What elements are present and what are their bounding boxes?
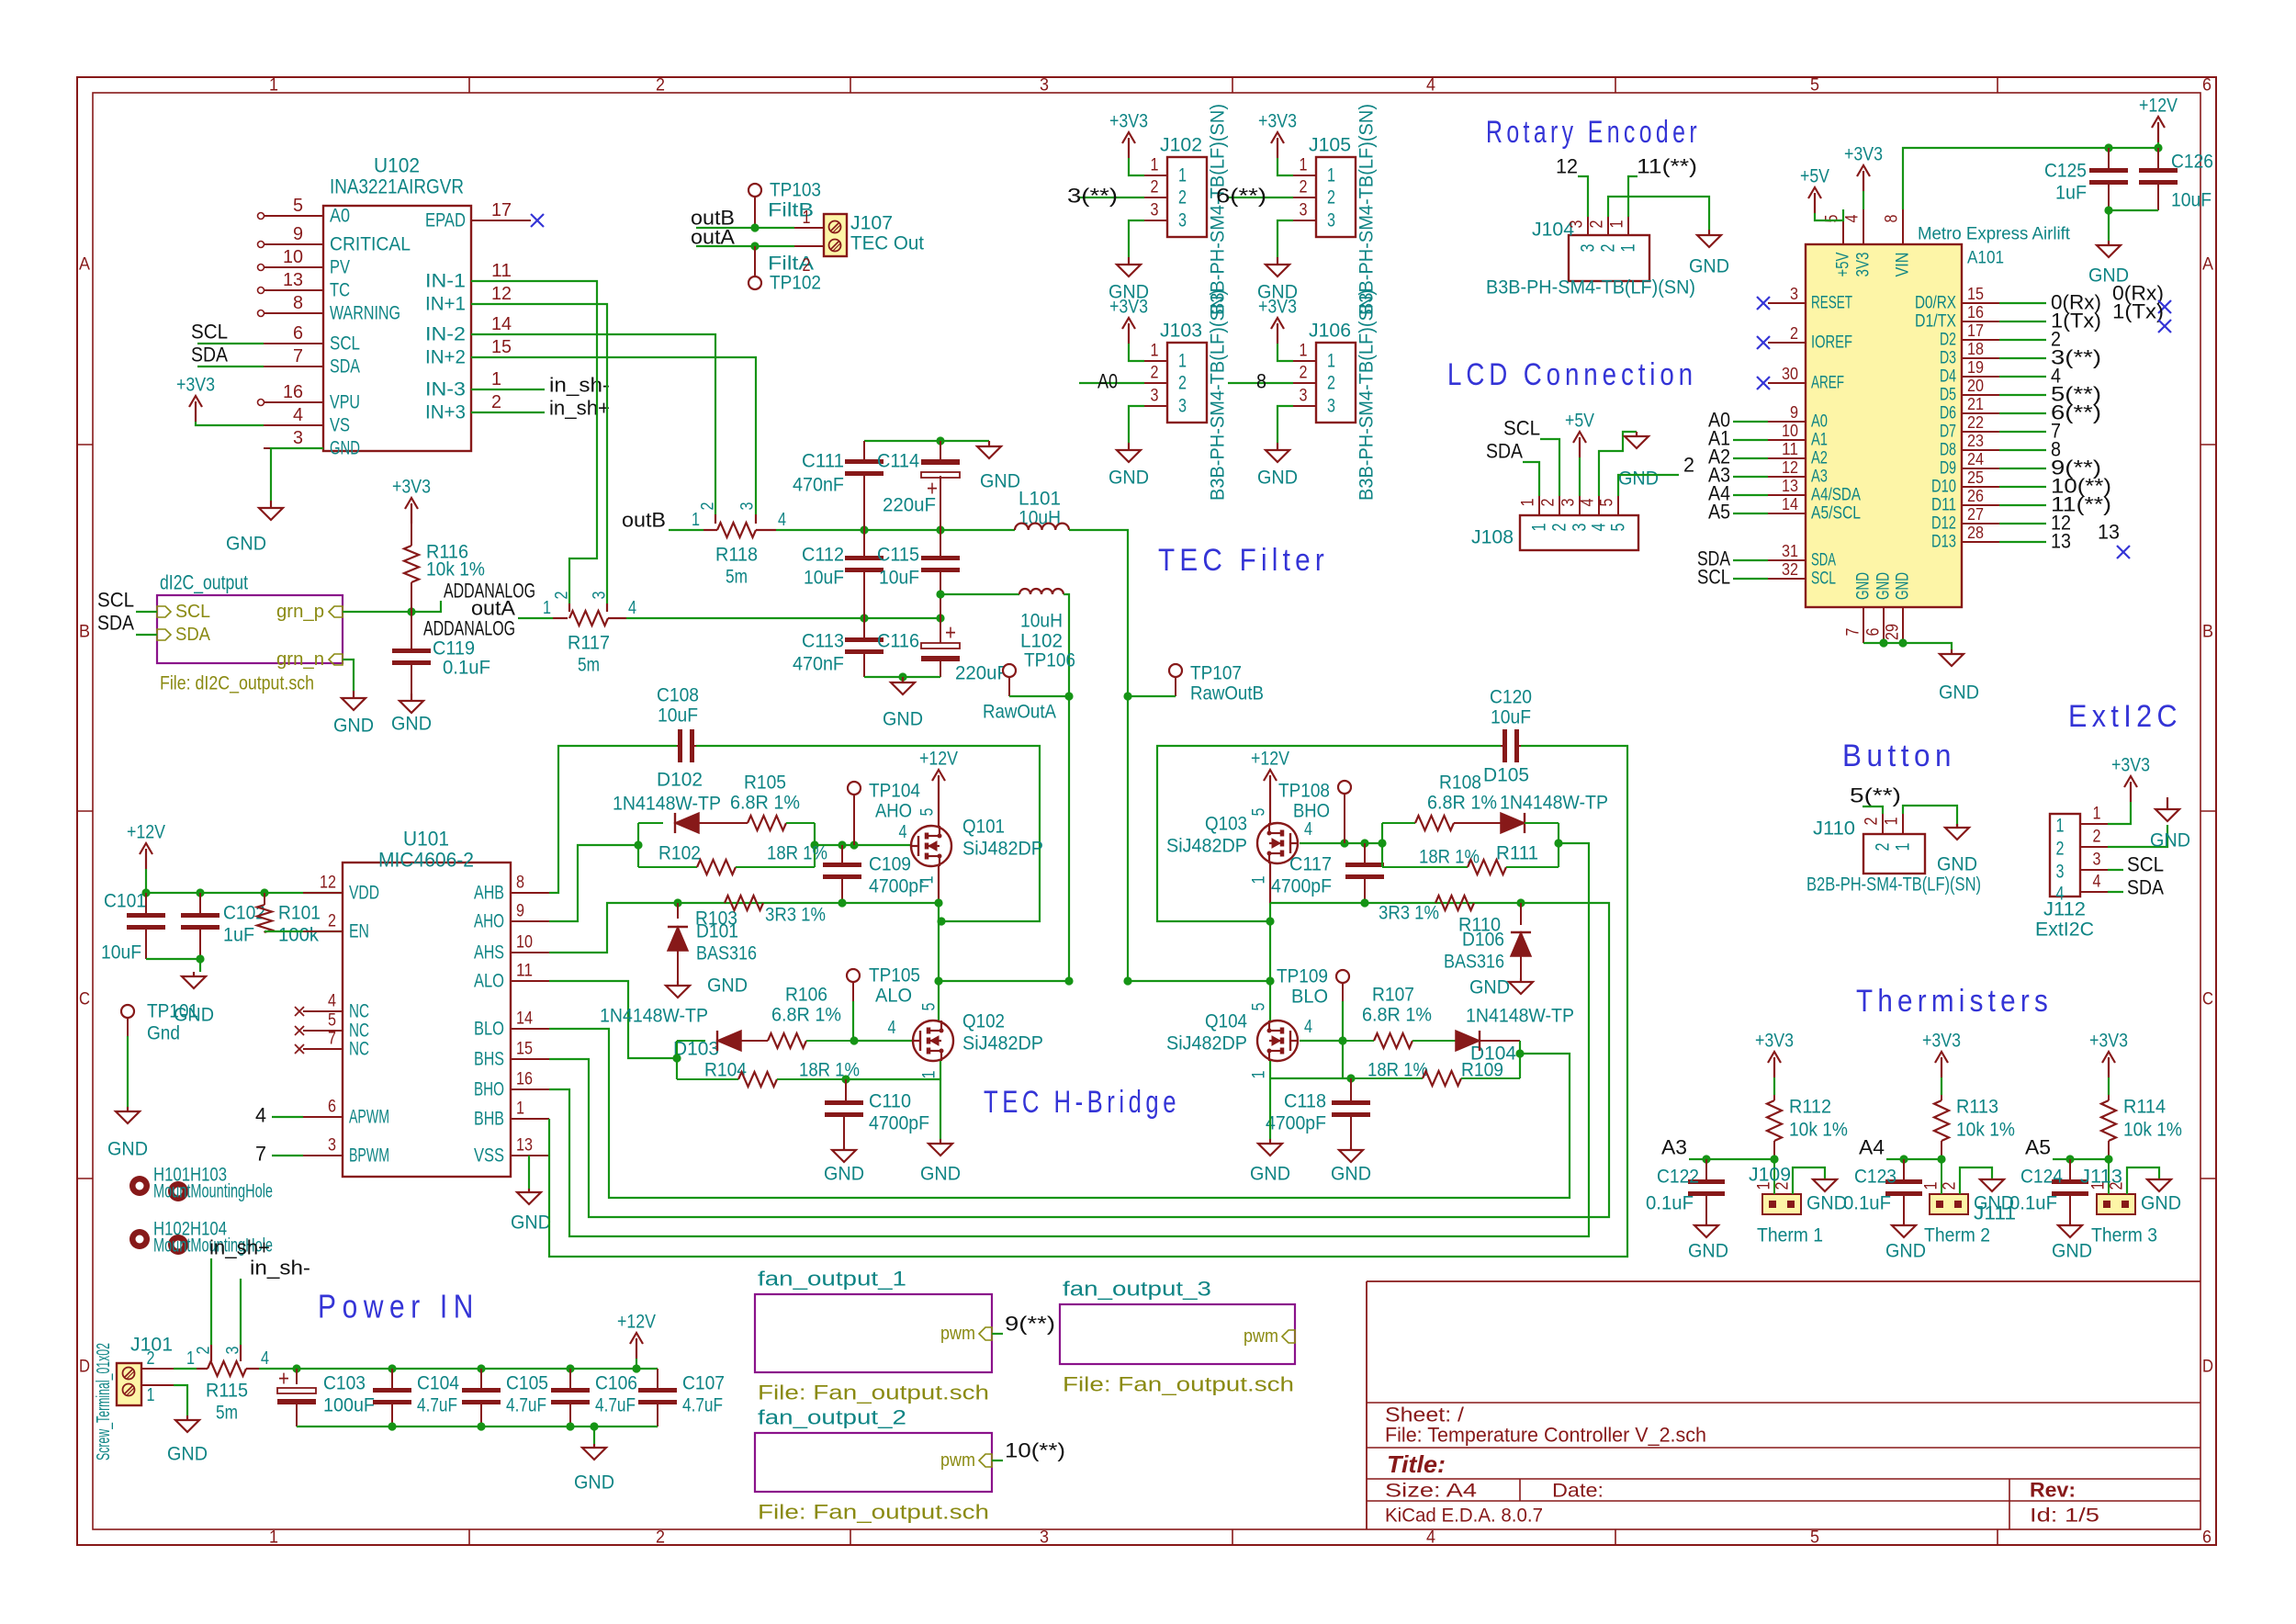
resistor R111 18R	[1382, 843, 1559, 875]
svg-text:grn_p: grn_p	[276, 602, 324, 622]
wire/label 8 (A101 D8)	[1999, 438, 2061, 461]
svg-text:R106: R106	[785, 985, 827, 1006]
ground GND (C118)	[1331, 1147, 1371, 1185]
svg-text:GND: GND	[1937, 854, 1977, 875]
svg-text:8: 8	[1883, 215, 1902, 223]
svg-text:RawOutA: RawOutA	[983, 702, 1056, 723]
svg-text:R102: R102	[658, 843, 701, 864]
wire AHS rail (C109/R103/D101)	[673, 898, 942, 907]
svg-text:21: 21	[1967, 395, 1984, 413]
svg-text:4: 4	[778, 510, 786, 530]
svg-text:GND: GND	[1974, 1193, 2014, 1214]
svg-text:16: 16	[1967, 303, 1984, 321]
svg-text:24: 24	[1967, 450, 1984, 468]
svg-text:1(Tx): 1(Tx)	[2112, 300, 2164, 323]
power +12V (Q101)	[918, 749, 959, 827]
ground GND (power rail)	[574, 1427, 614, 1494]
svg-text:R115: R115	[206, 1381, 248, 1402]
label 1(Tx) floating with no-connect	[2112, 300, 2171, 333]
svg-text:GND: GND	[920, 1164, 961, 1185]
svg-text:11: 11	[491, 261, 512, 281]
svg-text:1N4148W-TP: 1N4148W-TP	[1466, 1006, 1574, 1027]
svg-text:5: 5	[293, 196, 303, 216]
svg-text:LCD Connection: LCD Connection	[1447, 357, 1697, 392]
svg-text:ALO: ALO	[875, 986, 912, 1007]
resistor R117 5m shunt	[518, 592, 636, 676]
wire power bottom rail	[297, 1422, 658, 1430]
svg-text:2: 2	[656, 1528, 665, 1548]
test point TP101 Gnd	[121, 1001, 198, 1108]
svg-text:4700pF: 4700pF	[1271, 876, 1332, 897]
svg-text:GND: GND	[1874, 572, 1894, 600]
svg-text:2: 2	[2093, 828, 2101, 847]
svg-text:10(**): 10(**)	[1005, 1439, 1065, 1462]
svg-text:3: 3	[738, 502, 758, 511]
diode D101 BAS316	[668, 903, 757, 981]
svg-text:+3V3: +3V3	[1109, 297, 1148, 318]
wire outA to J107 pin2	[696, 242, 794, 250]
capacitor C104 4.7uF	[373, 1369, 459, 1427]
capacitor C111 470nF	[793, 441, 884, 530]
svg-text:Q102: Q102	[962, 1011, 1005, 1032]
svg-text:D9: D9	[1940, 459, 1956, 479]
svg-text:15: 15	[491, 337, 512, 357]
connector J111	[1922, 1159, 2017, 1246]
label pin4 Q101	[899, 822, 907, 842]
capacitor C119 0.1uF	[392, 612, 490, 694]
svg-text:GND: GND	[1806, 1193, 1847, 1214]
label SCL (A101)	[1697, 566, 1768, 589]
power +5V (J108)	[1565, 411, 1594, 497]
svg-text:J106: J106	[1309, 321, 1351, 342]
svg-text:Rotary Encoder: Rotary Encoder	[1486, 115, 1701, 150]
wire IN+2 to R118 kelvin3	[471, 357, 756, 514]
svg-text:+12V: +12V	[919, 749, 958, 770]
svg-text:6.8R 1%: 6.8R 1%	[1362, 1005, 1432, 1026]
svg-text:1uF: 1uF	[223, 925, 254, 946]
resistor R115 5m shunt	[174, 1345, 269, 1424]
svg-text:IOREF: IOREF	[1811, 333, 1852, 353]
svg-text:A3: A3	[1661, 1136, 1687, 1159]
svg-text:28: 28	[1967, 524, 1984, 542]
svg-text:BPWM: BPWM	[349, 1145, 389, 1167]
svg-text:GND: GND	[1469, 977, 1510, 998]
mounting hole H101 H103	[129, 1165, 273, 1202]
svg-text:15: 15	[516, 1040, 533, 1059]
svg-text:J108: J108	[1471, 527, 1514, 548]
resistor R102 18R	[638, 843, 827, 875]
wire filter top rail to GND	[864, 436, 989, 445]
svg-text:3: 3	[2056, 862, 2065, 883]
svg-text:3: 3	[1178, 396, 1187, 417]
capacitor C120 10uF bootstrap	[1490, 687, 1532, 763]
svg-text:IN-3: IN-3	[425, 379, 466, 400]
wire L102 out to RawOutA column	[1064, 594, 1069, 696]
svg-text:TP108: TP108	[1278, 781, 1330, 802]
svg-text:C120: C120	[1490, 687, 1532, 708]
label 13 floating with no-connect	[2098, 521, 2130, 559]
svg-text:3: 3	[1559, 499, 1579, 507]
diode D105 1N4148W-TP	[1454, 765, 1608, 834]
hierarchical sheet fan_output_2	[755, 1406, 992, 1524]
test point TP107 RawOutB	[1123, 663, 1264, 705]
svg-text:Date:: Date:	[1552, 1481, 1604, 1502]
wire/label 9(**) (A101 D9)	[1999, 457, 2101, 479]
svg-text:1: 1	[147, 1385, 155, 1405]
svg-text:TP106: TP106	[1024, 650, 1075, 671]
svg-text:+3V3: +3V3	[1922, 1031, 1961, 1052]
svg-text:2: 2	[1598, 244, 1619, 253]
ground GND (filter top)	[977, 441, 1020, 492]
svg-text:+3V3: +3V3	[392, 477, 431, 498]
wire J113 pin2 to GND	[2127, 1167, 2159, 1194]
svg-text:3: 3	[1578, 244, 1599, 253]
no-connect AREF	[1757, 377, 1770, 389]
svg-text:4: 4	[293, 405, 303, 425]
svg-text:C118: C118	[1284, 1091, 1326, 1112]
svg-text:BAS316: BAS316	[1444, 952, 1504, 973]
svg-text:3: 3	[1300, 387, 1308, 406]
ground GND (J101)	[167, 1415, 208, 1465]
svg-text:CRITICAL: CRITICAL	[330, 234, 411, 255]
svg-text:3: 3	[1570, 524, 1591, 532]
svg-text:2: 2	[1178, 373, 1187, 394]
svg-text:Therm 2: Therm 2	[1924, 1225, 1990, 1246]
svg-text:2: 2	[1588, 220, 1607, 229]
svg-text:2: 2	[1151, 178, 1159, 197]
label A5 (A101)	[1708, 501, 1768, 524]
svg-text:1: 1	[2093, 805, 2101, 824]
svg-text:1: 1	[1608, 220, 1627, 229]
svg-text:2: 2	[2056, 839, 2065, 860]
svg-text:17: 17	[1967, 321, 1984, 340]
svg-text:10uF: 10uF	[879, 568, 919, 589]
wire BLO rail	[549, 1029, 1570, 1198]
svg-text:GND: GND	[1939, 682, 1979, 704]
section title TEC H-Bridge	[984, 1085, 1180, 1120]
svg-text:GND: GND	[226, 534, 266, 555]
svg-text:25: 25	[1967, 468, 1984, 487]
svg-text:C111: C111	[802, 451, 844, 472]
svg-text:100uF: 100uF	[323, 1395, 375, 1416]
svg-text:ALO: ALO	[474, 971, 504, 992]
svg-text:3: 3	[591, 592, 610, 600]
svg-text:+3V3: +3V3	[2111, 755, 2150, 776]
gate loop Q101 right vertical	[810, 823, 818, 867]
svg-text:220uF: 220uF	[883, 495, 936, 516]
svg-text:1: 1	[1618, 244, 1639, 253]
svg-text:IN+3: IN+3	[425, 402, 466, 423]
svg-text:+3V3: +3V3	[1844, 144, 1883, 165]
resistor R118 5m shunt	[669, 502, 786, 588]
wire outB to J107 pin1	[696, 223, 794, 231]
svg-text:A2: A2	[1811, 449, 1828, 468]
svg-text:1: 1	[1519, 499, 1538, 507]
svg-text:9: 9	[516, 902, 524, 921]
resistor R105 6.8R	[730, 773, 815, 831]
ground GND (J113)	[2141, 1179, 2181, 1214]
wire AHB-C108 to AHS riser	[696, 746, 1040, 926]
svg-text:fan_output_3: fan_output_3	[1063, 1278, 1211, 1301]
wire grn_n to GND	[343, 660, 354, 691]
svg-text:1: 1	[1327, 165, 1335, 186]
svg-text:8: 8	[293, 293, 303, 313]
svg-text:220uF: 220uF	[955, 663, 1008, 684]
svg-text:A0: A0	[1097, 370, 1118, 393]
resistor R112 10k	[1767, 1095, 1848, 1159]
connector J105 B3B-PH-SM4-TB	[1293, 104, 1378, 315]
label ADDANALOG upper	[444, 580, 535, 603]
power +3V3 (J112)	[2108, 755, 2150, 825]
svg-text:R105: R105	[744, 773, 786, 794]
svg-text:IN+2: IN+2	[425, 347, 466, 368]
svg-text:D1/TX: D1/TX	[1915, 312, 1956, 332]
svg-text:2: 2	[328, 912, 336, 931]
test point TP102	[748, 246, 821, 294]
wire/label 12 (A101 D12)	[1999, 512, 2071, 535]
svg-text:C114: C114	[877, 451, 919, 472]
label A2 (A101)	[1708, 445, 1768, 468]
diode D104 1N4148W-TP	[1456, 1006, 1574, 1065]
svg-text:TP102: TP102	[770, 273, 821, 294]
svg-text:2: 2	[195, 1347, 214, 1355]
svg-text:GND: GND	[391, 714, 432, 735]
resistor R116 10k	[404, 524, 485, 612]
svg-text:pwm: pwm	[1244, 1326, 1278, 1347]
svg-text:2: 2	[1327, 373, 1335, 394]
ground GND (J112)	[2150, 797, 2190, 851]
svg-text:3R3 1%: 3R3 1%	[765, 905, 826, 926]
wire J104 pin2 to GND	[1608, 197, 1709, 230]
section title Thermisters	[1856, 984, 2053, 1019]
svg-text:File: Fan_output.sch: File: Fan_output.sch	[1063, 1373, 1294, 1396]
svg-text:1N4148W-TP: 1N4148W-TP	[613, 794, 721, 815]
svg-text:30: 30	[1782, 365, 1798, 383]
svg-text:AHO: AHO	[474, 911, 504, 932]
svg-text:10: 10	[1782, 422, 1798, 440]
svg-text:TP109: TP109	[1277, 966, 1328, 987]
svg-text:3: 3	[1568, 220, 1587, 229]
svg-text:A101: A101	[1967, 249, 2004, 268]
ground GND (C123)	[1885, 1224, 1926, 1262]
svg-text:outB: outB	[622, 509, 666, 532]
svg-text:0.1uF: 0.1uF	[1646, 1193, 1694, 1214]
wire R109 to Q104 source	[1270, 1074, 1356, 1082]
svg-text:Title:: Title:	[1387, 1450, 1446, 1478]
wire ALO riser	[549, 981, 677, 1058]
svg-text:2: 2	[1941, 1182, 1960, 1190]
svg-text:26: 26	[1967, 487, 1984, 505]
svg-text:D5: D5	[1940, 386, 1956, 405]
svg-text:D102: D102	[657, 770, 703, 791]
svg-text:AHB: AHB	[474, 883, 504, 904]
connector J106 B3B-PH-SM4-TB	[1293, 289, 1378, 501]
ground GND (J102)	[1109, 220, 1149, 303]
svg-text:GND: GND	[707, 976, 748, 997]
svg-text:0.1uF: 0.1uF	[1843, 1193, 1891, 1214]
svg-text:1: 1	[269, 76, 278, 96]
svg-text:18R 1%: 18R 1%	[799, 1060, 860, 1081]
wire/label 5(**) (A101 D5)	[1999, 383, 2101, 406]
wire VDD rail	[141, 888, 343, 897]
svg-text:4: 4	[1304, 1017, 1312, 1037]
svg-text:12: 12	[491, 284, 512, 304]
wire J111 pin2 to GND	[1960, 1167, 1992, 1194]
svg-text:+5V: +5V	[1834, 252, 1853, 276]
power +3V3 (J103)	[1109, 297, 1148, 362]
svg-text:1: 1	[803, 208, 811, 228]
wire/label 3(**) (A101 D3)	[1999, 346, 2101, 369]
svg-text:22: 22	[1967, 413, 1984, 432]
svg-text:SiJ482DP: SiJ482DP	[962, 1033, 1043, 1054]
svg-text:6.8R 1%: 6.8R 1%	[1427, 793, 1497, 814]
no-connect RESET	[1757, 297, 1770, 310]
svg-text:GND: GND	[2141, 1193, 2181, 1214]
inductor L102 10uH	[1019, 589, 1064, 652]
svg-text:BHS: BHS	[474, 1049, 504, 1070]
svg-text:J105: J105	[1309, 135, 1351, 156]
label in_sh+ (IN+3)	[471, 397, 610, 420]
svg-text:14: 14	[491, 314, 512, 334]
ground GND (J110)	[1937, 824, 1977, 875]
svg-text:C113: C113	[802, 631, 844, 652]
module A101 Metro Express Airlift	[1806, 225, 2071, 608]
svg-text:C101: C101	[104, 891, 146, 912]
wire Q104 source to GND	[1269, 1061, 1271, 1139]
ground GND (VSS)	[511, 1189, 551, 1234]
ground GND (J111)	[1974, 1179, 2014, 1214]
capacitor C109 4700pF	[823, 845, 929, 903]
svg-text:1: 1	[1178, 351, 1187, 372]
svg-text:10k 1%: 10k 1%	[1956, 1120, 2015, 1141]
svg-text:+3V3: +3V3	[1755, 1031, 1794, 1052]
svg-text:+3V3: +3V3	[176, 375, 215, 396]
svg-text:SDA: SDA	[191, 344, 228, 367]
svg-text:+3V3: +3V3	[1258, 297, 1297, 318]
svg-text:1: 1	[516, 1100, 524, 1119]
section title ExtI2C	[2068, 699, 2182, 734]
svg-text:C117: C117	[1289, 854, 1332, 875]
capacitor C110 4700pF	[825, 1079, 929, 1147]
no-connect IOREF	[1757, 336, 1770, 349]
section title LCD Connection	[1447, 357, 1697, 392]
ground GND (J108)	[1618, 432, 1659, 490]
wire U102 GND pin	[271, 448, 323, 501]
label in_sh- (R115)	[241, 1257, 310, 1346]
capacitor C107 4.7uF	[638, 1369, 725, 1427]
svg-text:3: 3	[1151, 201, 1159, 220]
svg-text:B3B-PH-SM4-TB(LF)(SN): B3B-PH-SM4-TB(LF)(SN)	[1208, 104, 1229, 315]
capacitor C115 10uF	[877, 530, 960, 618]
svg-text:BHB: BHB	[474, 1109, 504, 1130]
svg-text:SCL: SCL	[2127, 853, 2164, 876]
svg-text:10uF: 10uF	[1491, 707, 1531, 728]
svg-text:2: 2	[1790, 324, 1798, 343]
svg-text:100k: 100k	[278, 925, 319, 946]
svg-text:B3B-PH-SM4-TB(LF)(SN): B3B-PH-SM4-TB(LF)(SN)	[1208, 289, 1229, 501]
resistor R108 6.8R	[1382, 773, 1497, 831]
svg-text:B3B-PH-SM4-TB(LF)(SN): B3B-PH-SM4-TB(LF)(SN)	[1486, 277, 1695, 299]
svg-text:A: A	[79, 255, 90, 275]
svg-text:D4: D4	[1940, 367, 1956, 387]
svg-text:SDA: SDA	[330, 356, 360, 378]
svg-text:5: 5	[1810, 1528, 1819, 1548]
wire J109 pin2 to GND	[1793, 1167, 1825, 1194]
svg-text:BLO: BLO	[474, 1019, 504, 1040]
svg-text:C109: C109	[869, 854, 911, 875]
svg-text:3V3: 3V3	[1854, 253, 1874, 277]
connector J107 TEC Out screw terminal	[794, 208, 924, 276]
label SCL (U102)	[191, 321, 264, 344]
svg-text:R107: R107	[1372, 985, 1414, 1006]
label 12 (J104)	[1556, 155, 1588, 218]
svg-text:TEC H-Bridge: TEC H-Bridge	[984, 1085, 1180, 1120]
svg-text:12: 12	[1556, 155, 1578, 178]
svg-text:GND: GND	[883, 709, 923, 730]
svg-text:C106: C106	[595, 1373, 637, 1394]
capacitor C103 100uF polarized	[277, 1367, 375, 1427]
svg-text:+12V: +12V	[1251, 749, 1289, 770]
resistor R104 18R	[677, 1060, 860, 1088]
ground GND (C124)	[2052, 1224, 2092, 1262]
svg-text:1: 1	[1922, 1182, 1941, 1190]
test point TP104 AHO	[848, 781, 920, 846]
svg-text:J102: J102	[1160, 135, 1202, 156]
svg-text:C122: C122	[1657, 1167, 1699, 1188]
svg-text:in_sh+: in_sh+	[549, 397, 610, 420]
wire BHO rail	[549, 843, 1589, 1236]
wire J108 pin4 to GND	[1599, 432, 1637, 496]
svg-text:C: C	[79, 990, 90, 1009]
svg-text:10uF: 10uF	[2171, 190, 2212, 211]
power +12V (C101 rail)	[127, 822, 165, 894]
svg-text:Power IN: Power IN	[318, 1288, 479, 1325]
svg-text:3: 3	[224, 1347, 243, 1355]
ground GND (TP101)	[107, 1107, 148, 1160]
svg-text:J103: J103	[1160, 321, 1202, 342]
label SCL (J112)	[2108, 853, 2164, 876]
svg-text:Id: 1/5: Id: 1/5	[2030, 1506, 2099, 1527]
A101 left pins	[1768, 285, 1861, 589]
svg-text:5: 5	[920, 1003, 940, 1011]
connector J101 screw terminal	[94, 1335, 174, 1461]
svg-text:18: 18	[1967, 340, 1984, 358]
svg-text:A0: A0	[1811, 412, 1828, 432]
svg-text:5m: 5m	[726, 567, 748, 588]
svg-text:10uH: 10uH	[1020, 611, 1063, 632]
gate loop Q104 right vertical	[1515, 1041, 1524, 1078]
svg-text:1: 1	[692, 510, 700, 530]
svg-text:4: 4	[1426, 76, 1435, 96]
svg-text:C124: C124	[2020, 1167, 2063, 1188]
svg-text:11(**): 11(**)	[1637, 155, 1697, 178]
svg-text:2: 2	[1151, 364, 1159, 383]
label outA (J107)	[691, 226, 735, 249]
label 0(Rx) floating with no-connect	[2112, 282, 2171, 314]
test point TP103	[748, 180, 821, 229]
wire R101 to EN	[264, 930, 343, 932]
svg-text:1: 1	[1327, 351, 1335, 372]
svg-text:D: D	[2202, 1358, 2213, 1377]
svg-text:1: 1	[1893, 843, 1914, 851]
svg-text:GND: GND	[333, 716, 374, 737]
wire AHB riser	[549, 746, 677, 893]
power +3V3 (R112)	[1755, 1031, 1794, 1096]
resistor R110 3R3	[1379, 896, 1501, 936]
svg-text:SDA: SDA	[1811, 551, 1836, 570]
test point TP105 ALO	[847, 965, 920, 1042]
svg-text:WARNING: WARNING	[330, 303, 400, 324]
